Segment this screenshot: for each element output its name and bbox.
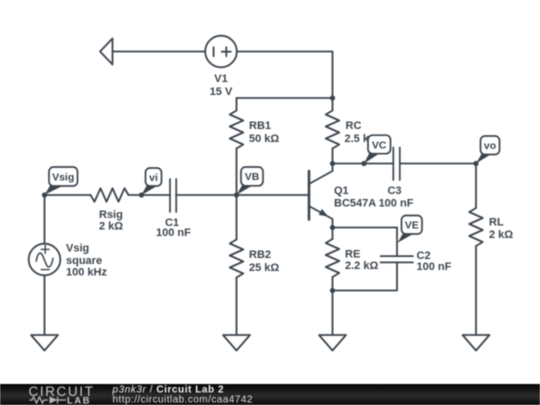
svg-text:25 kΩ: 25 kΩ bbox=[249, 262, 279, 274]
svg-text:50 kΩ: 50 kΩ bbox=[249, 133, 279, 145]
svg-text:100 kHz: 100 kHz bbox=[66, 267, 107, 279]
svg-text:100 nF: 100 nF bbox=[379, 198, 414, 210]
svg-text:Vsig: Vsig bbox=[52, 171, 74, 183]
svg-text:vi: vi bbox=[149, 172, 158, 184]
svg-text:Q1: Q1 bbox=[334, 185, 349, 197]
svg-text:http://circuitlab.com/caa4742: http://circuitlab.com/caa4742 bbox=[113, 395, 253, 405]
svg-text:LAB: LAB bbox=[67, 396, 91, 405]
svg-text:Rsig: Rsig bbox=[99, 209, 123, 221]
svg-text:RC: RC bbox=[346, 120, 362, 132]
svg-text:RE: RE bbox=[345, 249, 360, 261]
svg-text:VE: VE bbox=[405, 220, 419, 232]
svg-text:V1: V1 bbox=[214, 73, 227, 85]
svg-text:vo: vo bbox=[484, 140, 496, 152]
svg-text:100 nF: 100 nF bbox=[417, 261, 452, 273]
svg-text:RL: RL bbox=[489, 217, 504, 229]
svg-text:15 V: 15 V bbox=[210, 86, 233, 98]
svg-text:C3: C3 bbox=[387, 185, 401, 197]
svg-text:2 kΩ: 2 kΩ bbox=[489, 229, 513, 241]
svg-text:VC: VC bbox=[372, 139, 387, 151]
svg-text:VB: VB bbox=[245, 171, 260, 183]
svg-text:Vsig: Vsig bbox=[66, 243, 89, 255]
svg-text:RB1: RB1 bbox=[249, 120, 271, 132]
svg-text:2 kΩ: 2 kΩ bbox=[99, 221, 123, 233]
svg-text:100 nF: 100 nF bbox=[156, 227, 191, 239]
svg-text:2.2 kΩ: 2.2 kΩ bbox=[345, 260, 378, 272]
svg-text:BC547A: BC547A bbox=[334, 198, 376, 210]
svg-text:square: square bbox=[66, 255, 102, 267]
svg-text:RB2: RB2 bbox=[249, 249, 271, 261]
